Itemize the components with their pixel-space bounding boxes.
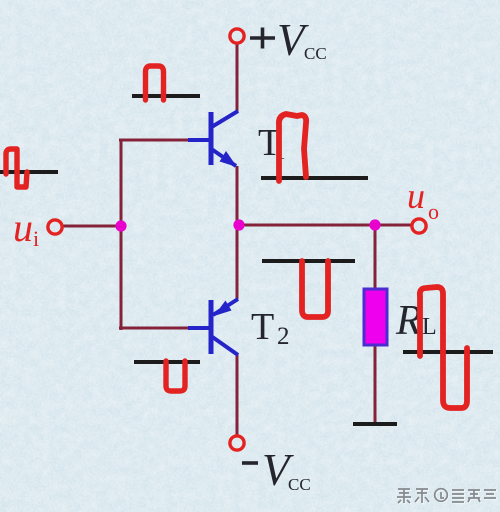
transistor T2 (PNP) <box>188 299 238 355</box>
svg-text:2: 2 <box>277 323 290 350</box>
label +Vcc <box>250 15 327 65</box>
svg-text:u: u <box>407 176 425 216</box>
label -Vcc <box>242 445 311 495</box>
terminal output uo <box>412 219 426 233</box>
waveform baseline: T2 emitter half-wave <box>262 259 355 263</box>
label RL <box>395 298 437 344</box>
svg-text:L: L <box>422 314 437 340</box>
svg-text:T: T <box>251 306 274 348</box>
label T2 <box>251 306 290 350</box>
wire: output node down to RL <box>374 225 377 291</box>
resistor RL <box>364 289 387 345</box>
waveform baseline: bottom-left (T2 base drive) <box>134 360 200 364</box>
terminal input ui <box>48 220 62 234</box>
waveform baseline: T1 emitter half-wave <box>261 176 368 180</box>
waveform: input square wave <box>6 149 27 187</box>
label uo <box>407 176 439 224</box>
wire: left vertical bus between T1 and T2 bases <box>120 139 123 330</box>
node B: emitter junction / output <box>233 219 244 230</box>
wire: input terminal to splitting node <box>62 225 122 228</box>
terminal +Vcc <box>230 29 244 43</box>
svg-text:u: u <box>13 205 33 250</box>
wire: T1 base lead <box>119 139 197 142</box>
wire: T2 base lead <box>119 327 197 330</box>
waveform: positive half pulse at T1 emitter <box>279 114 306 181</box>
wire: output node down to T2 emitter <box>236 225 239 299</box>
label T1 <box>258 122 286 164</box>
wire: output horizontal line to uo terminal <box>237 224 411 227</box>
svg-text:o: o <box>428 199 439 224</box>
svg-text:CC: CC <box>304 44 327 63</box>
waveform baseline: top-left (T1 base drive) <box>132 94 200 98</box>
waveform: negative half pulse at T2 emitter <box>302 261 328 317</box>
watermark: toutiao @是尧三皮 <box>398 490 497 504</box>
waveform: positive half pulse at T1 base <box>146 66 164 100</box>
ground <box>353 422 397 426</box>
wire: T1 emitter down to output node <box>236 166 239 227</box>
node A: input split <box>115 220 126 231</box>
label ui <box>13 205 39 251</box>
waveform: negative half pulse at T2 base <box>166 361 185 391</box>
terminal -Vcc <box>230 436 244 450</box>
waveform: output full square wave across RL <box>420 287 467 408</box>
wire: T2 collector down to -Vcc terminal <box>236 354 239 436</box>
wire: RL down to ground <box>374 344 377 423</box>
svg-text:i: i <box>33 226 39 251</box>
transistor T1 (NPN) <box>188 111 238 167</box>
waveform baseline: output signal <box>403 350 493 354</box>
wire: +Vcc terminal to T1 collector <box>236 43 239 112</box>
svg-text:CC: CC <box>288 475 311 494</box>
waveform baseline: input signal <box>0 170 58 174</box>
node C: RL tap <box>369 219 380 230</box>
